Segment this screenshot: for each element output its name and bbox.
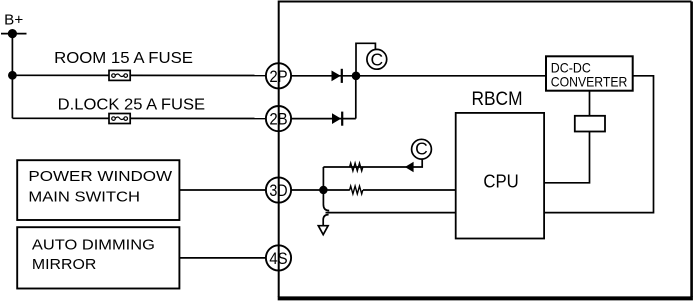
ground [318,226,328,235]
box POWER WINDOW MAIN SWITCH [17,160,179,220]
wire 3D to CPU with resistor R2 [291,189,456,191]
resistor R1 [350,163,363,171]
connector C (top) [367,49,387,69]
svg-text:RBCM: RBCM [472,89,523,110]
resistor (box) on DC-DC leg [575,116,605,132]
box AUTO DIMMING MIRROR [17,227,179,288]
connector 4S [266,245,291,270]
wire D.LOCK fuse branch to 2B [12,117,266,119]
wire resistor to CPU right side [544,132,589,183]
svg-text:3D: 3D [269,182,287,200]
svg-text:D.LOCK 25 A FUSE: D.LOCK 25 A FUSE [58,96,205,113]
wire mirror to 4S [179,257,266,259]
op-amp U1 CPU box [456,113,544,239]
fuse D.LOCK 25 A [109,114,130,124]
wire 2B to diode D2 [291,118,356,120]
wire node A to DC-DC converter [356,75,546,77]
wire node B up to R1 branch [322,167,324,190]
connector 2B [266,106,291,131]
connector 3D [266,177,291,202]
svg-text:ROOM 15 A FUSE: ROOM 15 A FUSE [54,50,193,67]
svg-text:POWER WINDOW: POWER WINDOW [28,168,173,185]
svg-text:2P: 2P [269,68,287,86]
label RBCM [472,89,523,110]
arrowhead on R1 branch [405,162,414,172]
connector 2P [266,63,291,88]
svg-text:MIRROR: MIRROR [32,256,97,273]
label ROOM 15 A FUSE [54,50,193,67]
wire inline connector to CPU lower input [326,212,456,214]
svg-text:C: C [415,139,428,159]
wire node B down to inline connector [323,190,329,211]
wire switch to 3D [179,189,266,191]
fuse ROOM 15 A [109,70,130,80]
diode D1 [332,69,343,83]
svg-text:2B: 2B [269,111,287,129]
junction dot on ROOM fuse branch [8,71,17,80]
DC-DC converter U2 [546,56,633,90]
node B+ label [4,13,23,29]
svg-text:4S: 4S [269,250,287,268]
svg-text:CPU: CPU [483,171,518,192]
wire node A up to connector C stub [356,43,375,76]
wire DC-DC output right loop to CPU [544,76,653,213]
wire ROOM fuse branch to 2P [12,74,266,76]
RBCM module outline box [278,2,693,299]
svg-text:CONVERTER: CONVERTER [551,74,628,90]
inline connector lower hook [323,215,328,226]
connector C (middle) [412,139,432,160]
wire R1 branch to connector C [323,159,422,167]
resistor R2 [350,186,363,194]
svg-text:MAIN SWITCH: MAIN SWITCH [28,189,140,206]
junction dot node B on 3D wire [319,186,327,194]
node B+ junction dot [8,29,17,38]
wire DC-DC bottom leg [589,91,591,116]
label D.LOCK 25 A FUSE [58,96,205,113]
svg-text:C: C [370,49,383,69]
wire D2 riser to node A [355,76,357,119]
svg-text:AUTO DIMMING: AUTO DIMMING [32,237,155,254]
wire 2P to diode D1 [291,75,356,77]
node B+ terminal tick [1,33,27,35]
diode D2 [332,112,343,126]
svg-text:B+: B+ [4,13,23,29]
wire B+ vertical bus [11,34,13,119]
junction dot node A [352,72,361,81]
